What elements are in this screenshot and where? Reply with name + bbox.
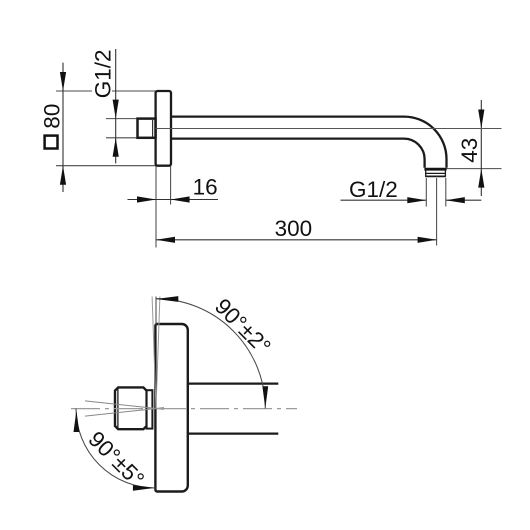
svg-text:G1/2: G1/2: [349, 177, 398, 202]
svg-text:G1/2: G1/2: [90, 50, 115, 99]
svg-text:80: 80: [40, 104, 65, 129]
svg-text:16: 16: [193, 174, 218, 199]
svg-text:300: 300: [275, 216, 313, 241]
svg-text:43: 43: [457, 138, 482, 163]
